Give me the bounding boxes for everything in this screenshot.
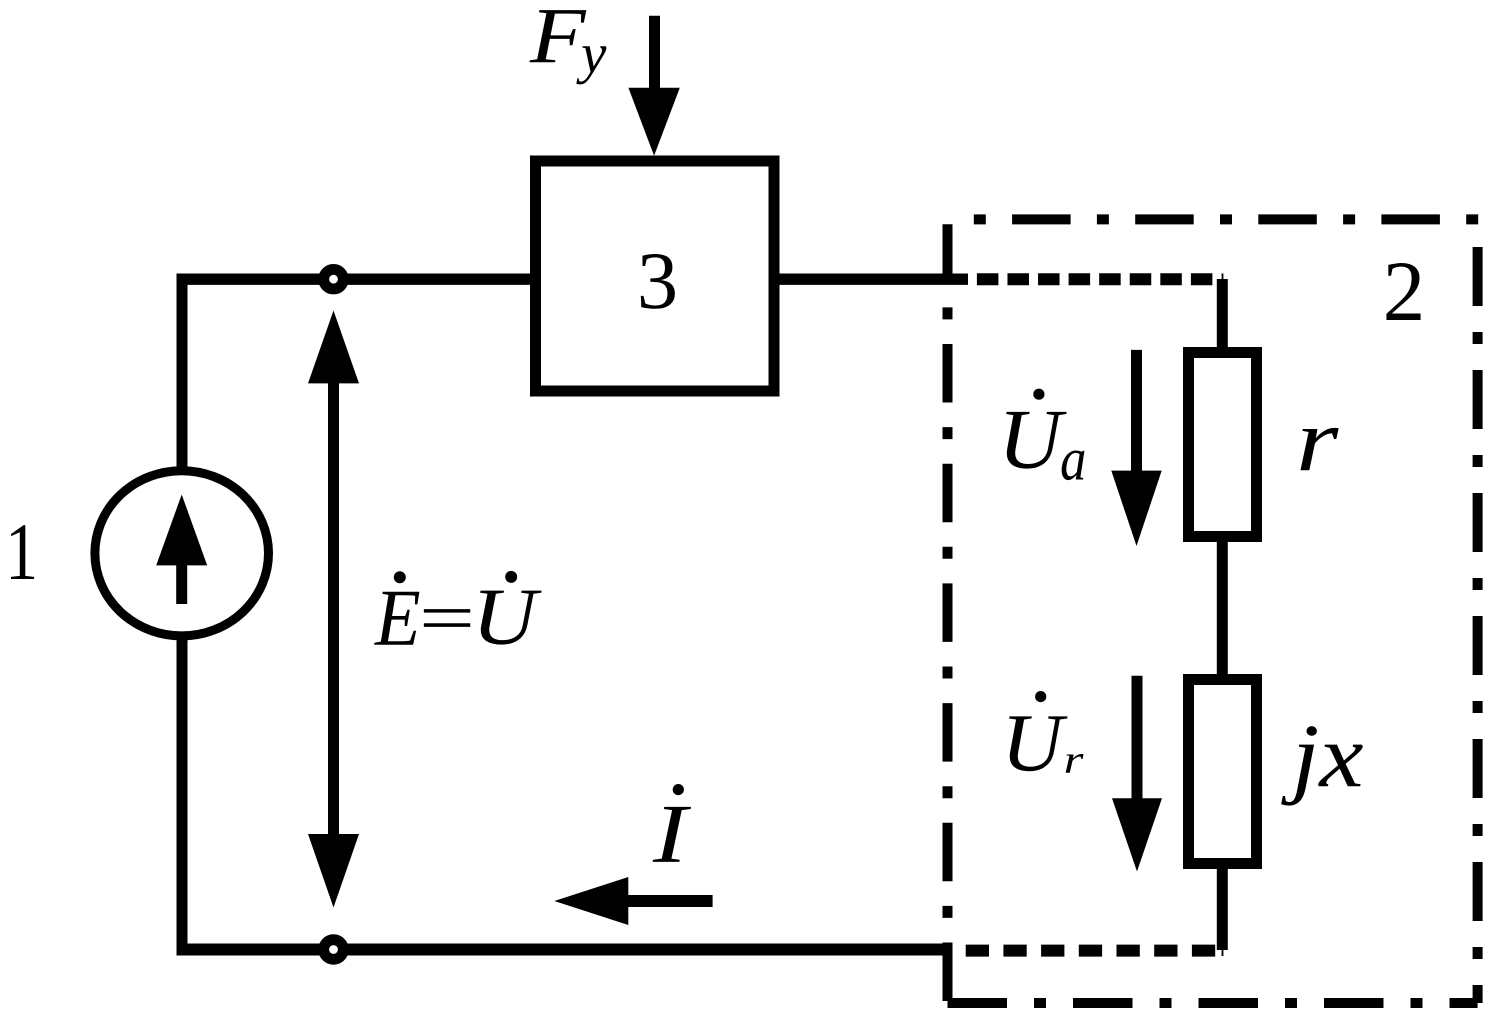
label I with dot (653, 807, 691, 862)
label Ua with dot (1006, 412, 1066, 469)
label jx (1281, 726, 1363, 805)
label 3 (641, 254, 675, 309)
voltage arrow Ur (1132, 676, 1143, 800)
label 2 (1386, 263, 1420, 320)
voltage double arrow E=U (328, 380, 339, 837)
label E=U with dots (374, 592, 419, 645)
dashed inner link top (977, 273, 1213, 285)
resistor jx (1189, 680, 1257, 864)
label 1 (11, 525, 34, 579)
resistor r (1189, 353, 1257, 537)
voltage arrow Ua (1131, 350, 1142, 473)
current source 1 (95, 471, 269, 636)
dash-dot boundary box 2 : left edge (943, 219, 953, 1003)
dash-dot boundary box 2 : right edge (1473, 222, 1483, 1003)
current arrow I (627, 895, 713, 907)
node A (top) (324, 269, 344, 289)
dash-dot boundary box 2 : top edge (948, 214, 1483, 224)
wire hairline tick below bottom dashed link (1222, 950, 1224, 957)
node B (bottom) (324, 940, 344, 960)
label Ur with dot (1009, 716, 1067, 771)
wire top horizontal from source to block 3 and to block 2 (177, 274, 969, 285)
dash-dot boundary box 2 : bottom edge (948, 998, 1478, 1008)
wire hairline tick above top dashed link (1222, 274, 1224, 280)
wire left vertical (source branch) (177, 279, 188, 949)
force arrow Fy (649, 16, 660, 90)
label r (1300, 428, 1338, 470)
block 3 (536, 161, 775, 391)
label Fy (530, 10, 587, 62)
current source arrow (176, 563, 187, 604)
wire bottom horizontal (177, 944, 948, 956)
dashed inner link bottom (966, 945, 1215, 957)
wire resistor chain vertical (1217, 279, 1228, 950)
